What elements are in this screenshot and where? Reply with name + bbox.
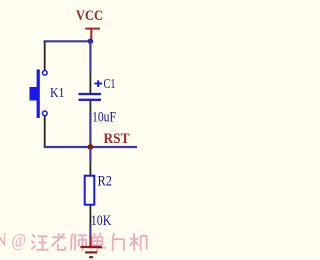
wire R2 to ground bbox=[89, 226, 91, 237]
svg-text:C1: C1 bbox=[104, 77, 116, 92]
resistor R2 body bbox=[85, 176, 95, 205]
pin R2 bottom bbox=[89, 205, 91, 226]
svg-text:N: N bbox=[0, 231, 7, 251]
svg-text:RST: RST bbox=[104, 131, 130, 147]
watermark char 老 bbox=[51, 233, 65, 250]
switch K1 contact bar bbox=[37, 69, 40, 118]
switch K1 plunger bbox=[30, 87, 40, 101]
svg-text:K1: K1 bbox=[50, 86, 65, 101]
switch K1 terminal circle top bbox=[42, 70, 47, 75]
svg-text:10uF: 10uF bbox=[92, 109, 116, 125]
junction at VCC node bbox=[88, 39, 94, 45]
pin R2 top bbox=[89, 161, 91, 175]
svg-text:VCC: VCC bbox=[76, 8, 103, 24]
svg-text:10K: 10K bbox=[91, 213, 112, 229]
watermark char 师 bbox=[71, 233, 87, 251]
capacitor C1 bottom plate bbox=[79, 99, 102, 101]
watermark char 汪 bbox=[31, 234, 48, 249]
wire RST rail bbox=[44, 146, 137, 148]
junction at RST node bbox=[88, 144, 94, 150]
watermark char 机 bbox=[130, 233, 147, 251]
switch K1 terminal circle bottom bbox=[42, 111, 47, 116]
ground stub bbox=[89, 237, 91, 247]
svg-text:@: @ bbox=[11, 232, 26, 252]
watermark char 单 bbox=[89, 233, 106, 253]
wire C1 to RST rail bbox=[89, 112, 91, 148]
svg-text:R2: R2 bbox=[98, 174, 113, 190]
wire VCC node to C1 bbox=[89, 41, 91, 72]
capacitor C1 plus sign bbox=[95, 80, 103, 87]
capacitor C1 top plate bbox=[79, 93, 102, 95]
ground bar 3 bbox=[89, 256, 93, 258]
ground bar 1 bbox=[80, 246, 102, 248]
power port VCC bar symbol bbox=[85, 29, 100, 41]
pin C1 bottom bbox=[89, 101, 91, 112]
ground bar 2 bbox=[85, 251, 97, 253]
wire RST node to R2 bbox=[89, 147, 91, 161]
pin K1 bottom bbox=[44, 116, 46, 147]
pin C1 top bbox=[89, 73, 91, 94]
watermark char 片 bbox=[113, 233, 125, 251]
pin K1 top bbox=[44, 41, 46, 70]
wire top rail bbox=[44, 40, 91, 42]
